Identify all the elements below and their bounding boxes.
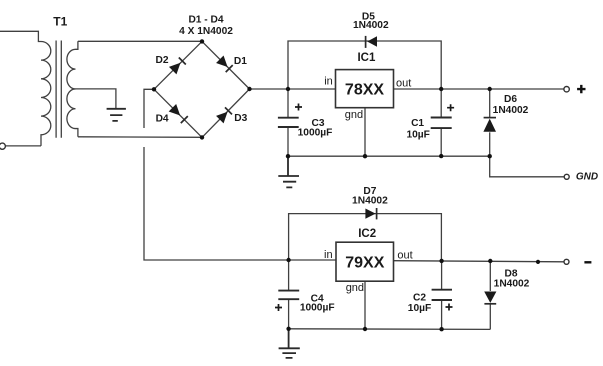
svg-text:10µF: 10µF (406, 129, 429, 140)
wire C1 branch (440, 89, 442, 117)
terminal - output (564, 259, 569, 264)
node bridge left (152, 87, 156, 91)
svg-text:D3: D3 (234, 113, 247, 124)
svg-text:GND: GND (576, 171, 598, 182)
plus sign output terminal (577, 85, 585, 93)
svg-text:out: out (397, 250, 412, 262)
wire IC1 out to + terminal (394, 88, 564, 90)
cathode bar D4 (181, 116, 188, 123)
svg-text:in: in (324, 249, 333, 261)
svg-text:IC2: IC2 (358, 228, 376, 240)
ground (center tap) (107, 109, 126, 121)
cathode bar D5 (365, 36, 367, 48)
wire D8 branch (489, 261, 491, 291)
transformer T1 secondary winding (67, 41, 78, 137)
diode D6 (483, 119, 496, 132)
ground (below C4) (279, 329, 300, 358)
diode D5 (367, 36, 377, 47)
svg-text:D1: D1 (234, 56, 247, 67)
cathode bar D3 (225, 107, 232, 114)
bridge edge bottom-right (202, 89, 250, 137)
cathode bar D1 (226, 65, 233, 72)
node bridge right (247, 87, 251, 91)
svg-text:gnd: gnd (346, 282, 364, 294)
svg-text:in: in (324, 76, 333, 88)
wire ground rail upper (288, 155, 490, 157)
svg-text:D4: D4 (156, 114, 169, 125)
wire primary bottom (6, 145, 42, 147)
cathode bar D2 (179, 58, 186, 65)
svg-text:C1: C1 (411, 118, 424, 129)
bridge edge bottom-left (154, 89, 202, 137)
node stray (536, 260, 540, 264)
node IC1 in (286, 87, 290, 91)
svg-text:gnd: gnd (345, 109, 363, 121)
wire primary top (0, 31, 41, 41)
terminal primary bottom (0, 143, 5, 149)
svg-text:IC1: IC1 (357, 52, 376, 64)
node C3 ground (286, 154, 290, 158)
ground (below C3) (278, 156, 299, 187)
node IC2 out / C2 (439, 259, 443, 263)
wire lower rail to IC2 in (289, 259, 336, 261)
IC1 box (336, 70, 394, 108)
cathode bar D8 (484, 303, 496, 305)
node bridge bottom (200, 135, 204, 139)
svg-text:78XX: 78XX (345, 82, 384, 99)
svg-text:1N4002: 1N4002 (353, 20, 389, 31)
wire IC2 out to - terminal (394, 261, 565, 262)
capacitor C2 plates (432, 290, 452, 300)
wire C2 branch (441, 261, 443, 289)
node D6 ground (488, 154, 492, 158)
diode D2 (169, 59, 184, 74)
node IC1 out / C1 (439, 87, 443, 91)
diode D4 (169, 104, 184, 119)
diode D8 (484, 292, 496, 303)
wire D6 branch (489, 89, 491, 117)
svg-text:D1 - D4: D1 - D4 (188, 15, 223, 26)
terminal GND output (564, 174, 569, 179)
bridge edge top-right (202, 41, 250, 89)
node C1 ground (439, 154, 443, 158)
wire C4 branch (288, 260, 290, 290)
plus sign C4 (275, 304, 282, 311)
node D8 top (488, 259, 492, 263)
svg-text:out: out (396, 77, 411, 89)
plus sign C2 (446, 304, 453, 311)
svg-text:4 X 1N4002: 4 X 1N4002 (179, 26, 233, 37)
capacitor C1 plates (431, 118, 452, 129)
svg-text:1000µF: 1000µF (300, 303, 335, 314)
wire bridge left vertex down (with crossover gap) (144, 89, 154, 128)
svg-text:1N4002: 1N4002 (352, 196, 388, 207)
svg-text:1N4002: 1N4002 (493, 105, 529, 116)
svg-text:10µF: 10µF (408, 303, 431, 314)
wire center tap (76, 89, 116, 109)
wire secondary bottom to bridge (78, 136, 202, 139)
svg-text:1000µF: 1000µF (298, 128, 333, 139)
capacitor C3 plates (278, 118, 299, 127)
transformer core (56, 41, 61, 138)
wire D7 bypass loop (289, 214, 442, 261)
cathode bar D7 (376, 208, 378, 219)
plus sign C3 (295, 104, 302, 111)
minus sign output terminal (584, 261, 591, 263)
terminal + output (564, 87, 569, 92)
svg-text:79XX: 79XX (345, 254, 384, 271)
wire D5 bypass loop (288, 41, 441, 89)
cathode bar D6 (484, 117, 496, 119)
svg-text:D2: D2 (155, 55, 168, 66)
transformer T1 primary winding (41, 42, 51, 146)
wire C3 branch (287, 89, 289, 117)
wire bridge right vertex to IC1 in (250, 88, 336, 90)
capacitor C4 plates (278, 291, 299, 300)
wire to GND terminal (490, 156, 565, 177)
diode D7 (365, 209, 375, 219)
node C4 ground (286, 327, 290, 331)
wire ground rail lower (289, 328, 491, 331)
diode D3 (216, 108, 231, 123)
wire secondary top to bridge (78, 40, 202, 42)
plus sign C1 (447, 104, 454, 111)
node gnd pin 2 (363, 327, 367, 331)
svg-text:1N4002: 1N4002 (494, 279, 530, 290)
node bridge top (200, 39, 204, 43)
IC2 box (336, 242, 394, 281)
node gnd pin 1 (363, 154, 367, 158)
svg-text:D6: D6 (504, 94, 517, 105)
diode D1 (216, 55, 231, 70)
node D6 top (488, 87, 492, 91)
bridge edge top-left (154, 41, 202, 89)
node IC2 in (286, 258, 290, 262)
wire IC2 gnd pin (364, 281, 366, 329)
node C2 ground (439, 327, 443, 331)
wire IC1 gnd pin (364, 108, 366, 157)
svg-text:T1: T1 (53, 14, 67, 28)
